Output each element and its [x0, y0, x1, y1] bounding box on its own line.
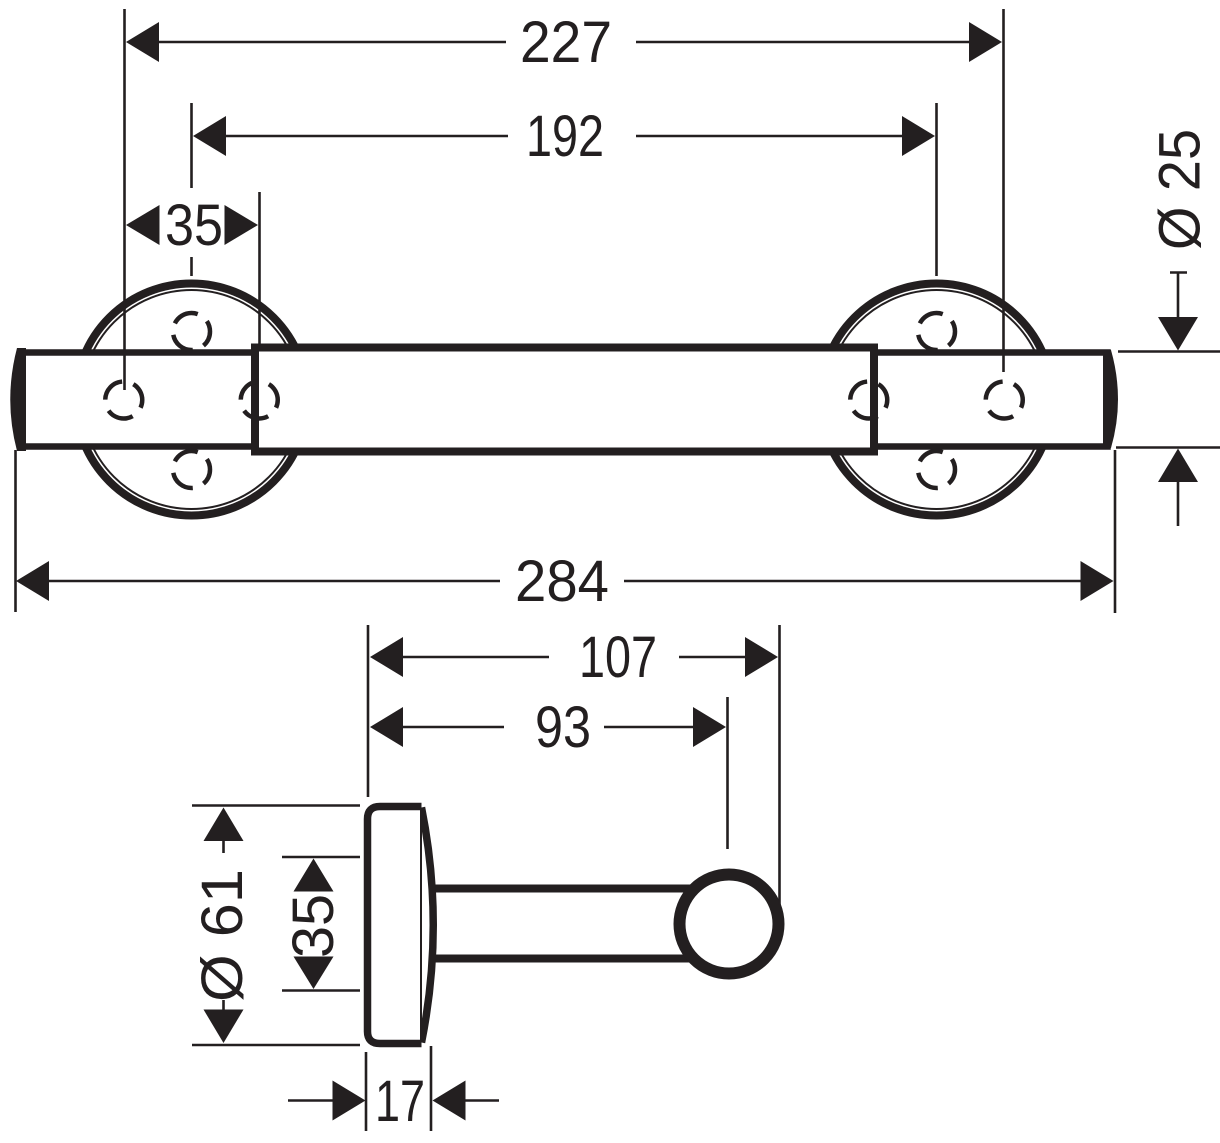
- dim diameter 25 down arrow: [1158, 317, 1198, 351]
- svg-text:93: 93: [535, 695, 591, 760]
- side view escutcheon dome: [422, 808, 434, 1043]
- side view wall plate body: [368, 807, 422, 1044]
- dim 284 line right segment: [624, 580, 1082, 583]
- dim 17 left extension line: [365, 1052, 368, 1131]
- flange right inner circle: [827, 290, 1046, 509]
- svg-text:35: 35: [165, 193, 223, 258]
- svg-text:284: 284: [515, 549, 609, 614]
- dim 227 line left segment: [158, 41, 506, 44]
- screw hole right flange south: [918, 451, 955, 488]
- side view ball end: [680, 875, 779, 974]
- dim diameter 25 upper leader line: [1177, 273, 1180, 319]
- dim 284 line left segment: [48, 580, 500, 583]
- dim 192 left extension line lower dash: [190, 257, 193, 276]
- dim 107 left extension line: [367, 625, 370, 797]
- svg-text:17: 17: [375, 1069, 425, 1134]
- dim 93 right arrow: [693, 707, 726, 747]
- flange right outer circle: [821, 284, 1053, 516]
- dim 227 line right segment: [636, 41, 971, 44]
- dim 93 line right segment: [604, 726, 694, 729]
- dim diameter 61 down arrow: [204, 1010, 244, 1044]
- dim 93 left arrow: [370, 707, 403, 747]
- dim 35 right arrow: [225, 205, 259, 245]
- dim 17 right arrow: [433, 1081, 466, 1121]
- svg-text:Ø 25: Ø 25: [1148, 129, 1213, 250]
- svg-text:Ø 61: Ø 61: [190, 869, 255, 1002]
- side view stem top edge: [424, 885, 700, 893]
- screw hole left flange east: [241, 382, 278, 419]
- svg-text:107: 107: [579, 625, 657, 690]
- dim 107 right extension line: [778, 625, 781, 905]
- dim diameter 25 top extension line: [1118, 350, 1220, 353]
- dim 93 right extension line: [726, 697, 729, 849]
- screw hole left flange west: [105, 382, 142, 419]
- dim 17 left arrow: [333, 1081, 366, 1121]
- grab bar tube: [255, 348, 874, 452]
- dim 227 right extension line: [1002, 9, 1005, 372]
- dim 93 line left segment: [402, 726, 504, 729]
- dim 227 left arrow: [126, 22, 159, 62]
- svg-text:192: 192: [526, 104, 604, 169]
- screw hole right flange north: [918, 313, 955, 350]
- dim 192 right arrow: [902, 116, 935, 156]
- svg-text:35: 35: [281, 894, 346, 958]
- dim 17 right extension line: [430, 1046, 433, 1131]
- flange left inner circle: [82, 290, 301, 509]
- dim 107 line right segment: [679, 656, 747, 659]
- side view plate face inner edge: [420, 810, 422, 1040]
- dim diameter 61 up arrow: [204, 808, 244, 842]
- dim 35 right extension line: [258, 192, 261, 346]
- dim 107 line left segment: [402, 656, 549, 659]
- dim 227 right arrow: [969, 22, 1002, 62]
- screw hole left flange north: [173, 313, 210, 350]
- dim 192 line right segment: [636, 135, 904, 138]
- dim diameter 25 top tick: [1170, 271, 1187, 274]
- side view stem bottom edge: [424, 955, 700, 963]
- flange left outer circle: [76, 284, 308, 516]
- dim 107 left arrow: [370, 637, 403, 677]
- dim 35 side down arrow: [294, 957, 334, 990]
- dim 35 left arrow: [126, 205, 160, 245]
- dim 107 right arrow: [745, 637, 778, 677]
- dim 17 left leader line: [288, 1099, 333, 1102]
- dim 284 right arrow: [1081, 561, 1114, 601]
- dim diameter 61 top extension line: [192, 804, 360, 807]
- dim diameter 25 lower leader line: [1177, 481, 1180, 526]
- dim 35 side bottom extension line: [282, 989, 360, 992]
- dim 192 right extension line: [935, 103, 938, 276]
- dim 17 right leader line: [466, 1099, 500, 1102]
- left end cap: [10, 348, 26, 451]
- dim 284 right extension line: [1114, 450, 1117, 613]
- screw hole right flange west: [850, 382, 887, 419]
- svg-text:227: 227: [520, 10, 612, 75]
- dim 192 left extension line upper: [190, 103, 193, 188]
- dim 227 left extension line: [123, 9, 126, 390]
- screw hole right flange east: [986, 382, 1023, 419]
- dim diameter 25 bottom extension line: [1116, 446, 1220, 449]
- dim 35 side top extension line: [282, 856, 360, 859]
- left wall-plate rectangle: [22, 353, 259, 447]
- dim 284 left extension line: [14, 450, 17, 612]
- right end cap: [1103, 350, 1118, 448]
- dim diameter 25 up arrow: [1158, 449, 1198, 483]
- dim 192 left arrow: [193, 116, 226, 156]
- right wall-plate rectangle: [871, 353, 1108, 447]
- dim diameter 61 bottom extension line: [192, 1044, 360, 1047]
- dim diameter 61 lower leader line: [222, 1000, 225, 1010]
- dim 284 left arrow: [16, 561, 49, 601]
- dim 192 line left segment: [225, 135, 508, 138]
- screw hole left flange south: [173, 451, 210, 488]
- dim 35 side up arrow: [294, 859, 334, 892]
- dim diameter 61 upper leader line: [222, 841, 225, 853]
